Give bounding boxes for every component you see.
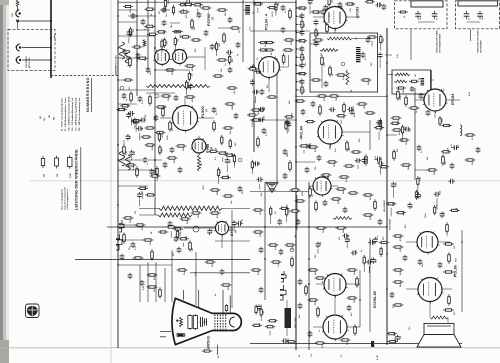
value label 560 — [374, 241, 376, 245]
resistor R296 — [388, 340, 398, 342]
capacitor C45 — [163, 162, 168, 169]
resistor R178 — [443, 243, 454, 245]
value label Bl — [218, 356, 220, 358]
capacitor C228 — [225, 158, 230, 165]
capacitor C343 — [382, 4, 387, 11]
value label 470k — [153, 275, 156, 280]
legend ranges c — [49, 115, 51, 118]
capacitor C279 — [258, 117, 265, 122]
wire — [331, 185, 338, 187]
capacitor C38 — [138, 96, 143, 103]
label option box1 line1 — [437, 30, 439, 53]
wire stub — [286, 127, 288, 134]
resistor R180d — [251, 269, 262, 271]
resistor R78 — [326, 22, 329, 34]
value label 500 — [145, 57, 147, 61]
junction — [154, 47, 156, 49]
value label 1n — [285, 10, 287, 13]
wire rung 5 — [118, 89, 155, 91]
wire — [346, 283, 360, 285]
junction — [117, 159, 119, 161]
resistor R259 — [417, 176, 419, 186]
page fold vertical crease — [110, 0, 112, 363]
value label 15k — [439, 190, 441, 194]
wire — [313, 326, 323, 328]
svg-text:1M: 1M — [336, 98, 338, 101]
capacitor C274 — [255, 69, 262, 74]
value label 125V — [436, 204, 438, 209]
value label 8,2k — [168, 0, 170, 4]
resistor R83 — [329, 65, 332, 77]
value label 10n — [305, 62, 307, 66]
svg-text:3n9: 3n9 — [372, 0, 374, 1]
value label 90V — [145, 114, 147, 118]
capacitor C34b — [197, 12, 202, 19]
label tube V7 id — [206, 108, 209, 112]
legend sample resistor a — [41, 156, 44, 168]
value label 68 — [318, 32, 320, 35]
value label 8,2k — [152, 145, 154, 150]
resistor R86b — [311, 79, 322, 81]
resistor R181e — [291, 256, 294, 268]
resistor R32 — [144, 8, 155, 10]
value label 1k5 — [219, 42, 221, 46]
capacitor C36b — [228, 17, 233, 24]
junction — [391, 74, 393, 76]
resistor R136 — [151, 249, 154, 261]
capacitor C330 — [133, 118, 138, 125]
resistor R317 — [439, 116, 441, 126]
value label 5k — [299, 354, 301, 357]
label tube V5 PCL84 — [300, 125, 304, 138]
capacitor C261 — [434, 192, 441, 197]
junction — [154, 69, 156, 71]
capacitor C351 — [404, 127, 411, 132]
value label 1M — [336, 98, 338, 101]
waveform sync 2 — [126, 155, 131, 170]
resistor R266 — [215, 42, 217, 52]
capacitor C298 — [128, 111, 135, 116]
underline heading — [91, 78, 93, 112]
resistor R308 — [220, 176, 230, 178]
wire — [359, 270, 361, 327]
wire h y343 — [250, 343, 462, 345]
resistor inside CRT — [180, 317, 183, 327]
resistor R54c — [223, 127, 234, 129]
capacitor C341 — [323, 5, 328, 12]
resistor R337 — [380, 34, 382, 44]
resistor R144b — [177, 269, 188, 271]
value label 100k — [302, 191, 304, 196]
wire — [406, 241, 417, 243]
value label 3n — [216, 112, 218, 115]
resistor R153 — [309, 186, 312, 198]
wire crt feed 7 — [231, 210, 233, 308]
capacitor C276 — [252, 90, 259, 95]
capacitor C141b — [279, 249, 284, 256]
resistor R206 — [301, 52, 303, 62]
wire — [160, 9, 170, 11]
value label 1M8 — [232, 105, 234, 110]
value label 1M — [318, 11, 320, 14]
measuring circle e — [290, 248, 294, 252]
capacitor C240 — [285, 119, 290, 126]
pad contact — [16, 20, 19, 23]
waveform video 1 — [119, 42, 124, 59]
svg-text:KONTRAST: KONTRAST — [389, 218, 392, 230]
value label 5k6 — [343, 190, 345, 194]
capacitor C246 — [408, 202, 413, 209]
svg-text:2M: 2M — [201, 163, 203, 166]
wire — [279, 66, 288, 68]
tube V7 PL500 — [171, 106, 199, 133]
wire agc right — [430, 70, 432, 94]
junction — [16, 46, 18, 48]
resistor R328 — [449, 209, 459, 211]
wire crt feed 6 — [195, 252, 197, 305]
wire bus B4 — [154, 0, 156, 215]
wire stub — [255, 96, 257, 103]
resistor R144c — [205, 261, 216, 263]
value label 5k6 — [180, 34, 182, 38]
wire h y241 — [215, 240, 250, 242]
value label 470 — [266, 84, 269, 88]
value label 470 — [303, 55, 306, 59]
wire stub — [130, 117, 132, 125]
value label 33k — [225, 12, 227, 16]
value label 1k5 — [334, 163, 336, 167]
legend sample value c — [70, 173, 72, 178]
wire stub — [346, 244, 348, 248]
capacitor ladder extra — [301, 109, 306, 116]
resistor R254 — [363, 255, 365, 265]
legend ranges a — [39, 116, 42, 119]
capacitor C214 — [314, 40, 319, 47]
capacitor C42b — [234, 113, 239, 120]
value label 560 — [173, 252, 175, 256]
label tube V12 PCL86 — [454, 265, 458, 277]
legend row 2 — [64, 98, 67, 131]
capacitor C73 — [281, 5, 286, 12]
wire stub — [259, 184, 261, 190]
resistor R84 — [336, 74, 347, 76]
capacitor C77 — [361, 52, 366, 59]
wire stub — [363, 264, 365, 272]
wire option stub — [410, 29, 412, 60]
value label 10n — [242, 190, 244, 194]
wire crt in top a — [182, 290, 184, 300]
capacitor C268 — [210, 44, 215, 51]
resistor R60 — [123, 144, 126, 156]
resistor R290 — [379, 241, 389, 243]
resistor R309 — [208, 150, 218, 152]
value label 470 — [185, 14, 188, 18]
value label 50µ — [383, 37, 385, 41]
label tube V2 EF183 — [356, 7, 360, 18]
wire — [148, 159, 162, 161]
label tube V1 PCF80 — [206, 14, 211, 26]
resistor R156 — [336, 188, 347, 190]
capacitor C111 — [432, 11, 438, 19]
resistor R292 — [268, 320, 278, 322]
resistor crt top — [225, 304, 227, 311]
value label 15k — [315, 166, 317, 170]
capacitor C301 — [232, 220, 237, 227]
svg-text:REGELUNG UHF-TUNER: REGELUNG UHF-TUNER — [437, 30, 439, 53]
value label 2n — [421, 150, 423, 153]
resistor R43d — [223, 32, 226, 44]
frame UHF option box — [395, 1, 448, 29]
value label 560 — [371, 62, 373, 66]
resistor R174 — [393, 269, 404, 271]
wire stub — [128, 37, 130, 43]
svg-text:91 - 140 Abstimmeinheit u. T: 91 - 140 Abstimmeinheit u. Tuner — [64, 98, 67, 131]
value label 12k — [234, 90, 236, 94]
value label 125V — [301, 135, 303, 140]
value label 50µ — [287, 337, 289, 341]
wire stub — [251, 119, 253, 127]
svg-text:1M: 1M — [130, 220, 132, 223]
value label 1k — [154, 170, 156, 173]
junction — [386, 95, 388, 97]
svg-text:9..36: 9..36 — [377, 354, 379, 360]
resistor R215 — [187, 0, 189, 5]
svg-text:1M: 1M — [400, 249, 402, 252]
capacitor C114 — [410, 86, 414, 91]
value label 500 — [353, 105, 355, 109]
capacitor C258 — [416, 192, 421, 199]
AGC block box — [392, 70, 431, 94]
resistor R154 — [315, 200, 318, 212]
value label 1k5 — [405, 126, 407, 130]
value label 47k — [231, 58, 234, 62]
resistor R139 — [173, 228, 184, 230]
legend ranges d — [54, 117, 56, 120]
logo Graetz emblem — [26, 304, 40, 318]
wire stub — [233, 163, 235, 168]
capacitor C294 — [282, 339, 289, 344]
value label 90V — [458, 144, 460, 148]
wire stub — [260, 316, 262, 321]
svg-text:LEISTUNG DER WIDERSTÄNDE: LEISTUNG DER WIDERSTÄNDE — [74, 149, 79, 210]
value label 2n2 — [232, 152, 234, 156]
resistor R76 — [289, 8, 292, 20]
tube V1b PCF80 pentode — [171, 49, 188, 66]
wire — [184, 227, 216, 229]
wire stub — [142, 192, 144, 198]
capacitor C136 — [308, 331, 313, 338]
frame VHF option box — [456, 1, 500, 29]
value label 560 — [162, 148, 164, 152]
value label 220 — [167, 40, 169, 44]
value label 47k — [260, 192, 263, 196]
capacitor C201 — [300, 13, 305, 20]
label helligkeit — [384, 199, 386, 212]
value label 220 — [192, 72, 194, 76]
value label 270 — [129, 86, 131, 90]
value label 1M — [154, 289, 156, 292]
resistor R324 — [179, 238, 189, 240]
value label 220 — [183, 147, 185, 151]
resistor R277 — [247, 114, 257, 116]
junction — [461, 241, 463, 243]
wire — [222, 207, 250, 209]
value label 1k — [151, 13, 153, 16]
wire — [309, 185, 313, 187]
resistor R37 — [172, 31, 183, 33]
value label 1k — [472, 137, 474, 140]
value label 470 — [191, 98, 194, 102]
wire bus B11 — [414, 88, 416, 180]
capacitor C45b — [178, 167, 183, 174]
resistor R238 — [285, 120, 287, 130]
resistor chain R44 — [146, 85, 210, 88]
value label 18k — [310, 142, 312, 146]
wire stub — [174, 46, 176, 52]
svg-text:141 - 160 Bildzf. Verstaerke: 141 - 160 Bildzf. Verstaerker Ampl. — [68, 96, 71, 131]
resistor R62 — [150, 175, 161, 177]
resistor R31 — [123, 5, 133, 7]
label tube V9 id — [236, 230, 238, 233]
value label 5k6 — [142, 190, 144, 194]
capacitor C34c — [204, 30, 209, 37]
resistor R181b — [268, 244, 279, 246]
value label 1n — [312, 194, 314, 197]
capacitor crt c1 — [200, 317, 204, 327]
tube V10 ECH81 — [323, 274, 348, 298]
wire stub — [183, 9, 185, 13]
capacitor C235 — [253, 161, 260, 166]
resistor R161 — [308, 269, 319, 271]
junction — [295, 30, 297, 32]
resistor R229 — [233, 154, 235, 164]
value label 5n — [365, 57, 367, 60]
wire bus B2 — [136, 0, 138, 96]
wire — [118, 79, 125, 81]
junction — [296, 65, 297, 66]
junction — [117, 204, 119, 206]
svg-text:1M: 1M — [321, 53, 323, 56]
capacitor C79 — [350, 109, 355, 116]
junction — [355, 38, 357, 40]
svg-text:181: 181 — [49, 115, 51, 118]
value label 470 — [321, 344, 324, 348]
value label 470 — [365, 157, 368, 161]
svg-text:8,2k: 8,2k — [312, 0, 314, 1]
wire stub — [170, 231, 172, 238]
wire — [136, 52, 138, 70]
value label 3n9 — [260, 2, 262, 6]
resistor R204 — [297, 40, 307, 42]
wire agc down — [431, 79, 435, 81]
svg-text:0,5W: 0,5W — [70, 173, 72, 178]
value label 8,2k — [143, 285, 145, 290]
wire — [137, 29, 150, 31]
value label 5k6 — [380, 156, 382, 160]
legend row 5 — [75, 97, 78, 131]
value label 1n — [329, 14, 331, 17]
wire — [310, 43, 320, 45]
tube V4 PCL84 triode — [257, 57, 281, 80]
measuring circle dy — [193, 226, 199, 232]
label tube V8 id — [211, 146, 214, 150]
value label 100k — [448, 147, 450, 152]
value label 10n — [354, 271, 356, 275]
capacitor C205 — [300, 46, 305, 53]
resistor R70b — [264, 42, 275, 44]
value label 270 — [258, 89, 260, 93]
value label 1M — [135, 211, 137, 214]
value label 0,25 — [278, 262, 280, 267]
value label 68 — [271, 52, 273, 55]
resistor R91b — [365, 112, 376, 114]
value label 1µ — [255, 67, 257, 70]
resistor R54 — [213, 120, 216, 132]
wire crt feed 3 — [155, 262, 157, 302]
value label 15k — [349, 147, 351, 151]
wire rung 6 — [118, 103, 137, 105]
resistor R162 — [315, 277, 326, 279]
resistor R58 — [155, 131, 166, 133]
resistor R260 — [434, 205, 436, 215]
resistor R230 — [221, 135, 223, 145]
junction — [296, 24, 297, 25]
value label 27k — [172, 127, 174, 131]
svg-text:161 - 170 Vertikal Ablenkung: 161 - 170 Vertikal Ablenkung Teil — [71, 98, 74, 131]
resistor R304 — [188, 71, 190, 81]
wire — [221, 235, 223, 249]
resistor R248 — [386, 203, 396, 205]
value label 220 — [139, 119, 141, 123]
wire — [438, 241, 450, 243]
value label 10n — [304, 88, 306, 92]
capacitor C122 — [168, 221, 173, 228]
svg-text:FÜR GERÄTE: FÜR GERÄTE — [25, 56, 28, 68]
junction — [386, 134, 388, 136]
wire stub — [183, 243, 185, 247]
waveform staircase 2 — [119, 220, 124, 232]
svg-text:1W: 1W — [57, 174, 59, 177]
value label 90V — [405, 224, 407, 228]
value label 470k — [399, 236, 402, 241]
wire — [346, 16, 360, 18]
svg-text:EF183: EF183 — [356, 7, 360, 18]
capacitor C347 — [277, 219, 282, 226]
capacitor C77b — [366, 37, 371, 44]
value label 33k — [352, 1, 354, 5]
resistor R163 — [305, 284, 308, 296]
value label 1M — [321, 53, 323, 56]
resistor R137 — [133, 257, 144, 259]
capacitor C212 — [314, 19, 319, 26]
value label 470 — [398, 131, 401, 135]
resistor R168 — [347, 297, 358, 299]
wire stub — [297, 73, 303, 75]
resistor R160c — [374, 199, 377, 211]
svg-text:NUMMERIERUNG: NUMMERIERUNG — [86, 77, 90, 112]
capacitor C287 — [342, 233, 349, 238]
resistor R177 — [446, 222, 449, 234]
value label 100k — [425, 213, 427, 218]
resistor R45 — [123, 79, 134, 81]
wire — [406, 288, 418, 290]
value label 2k2 — [356, 249, 358, 253]
value label 1k — [180, 231, 182, 234]
value label 4,7n — [376, 235, 379, 240]
value label 33k — [359, 138, 361, 142]
module box VHF inner — [458, 1, 498, 6]
resistor zigzag R39 — [143, 40, 146, 47]
